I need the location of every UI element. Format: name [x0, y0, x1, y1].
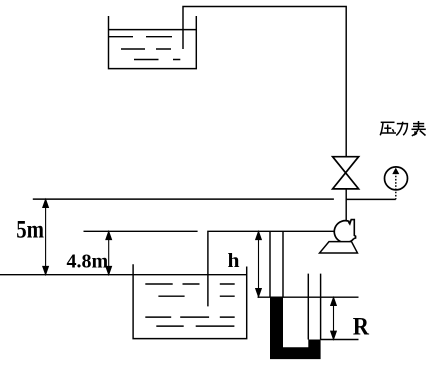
svg-text:5m: 5m: [16, 214, 44, 243]
svg-text:4.8m: 4.8m: [67, 250, 109, 272]
svg-text:R: R: [353, 314, 370, 341]
svg-text:h: h: [228, 251, 240, 272]
